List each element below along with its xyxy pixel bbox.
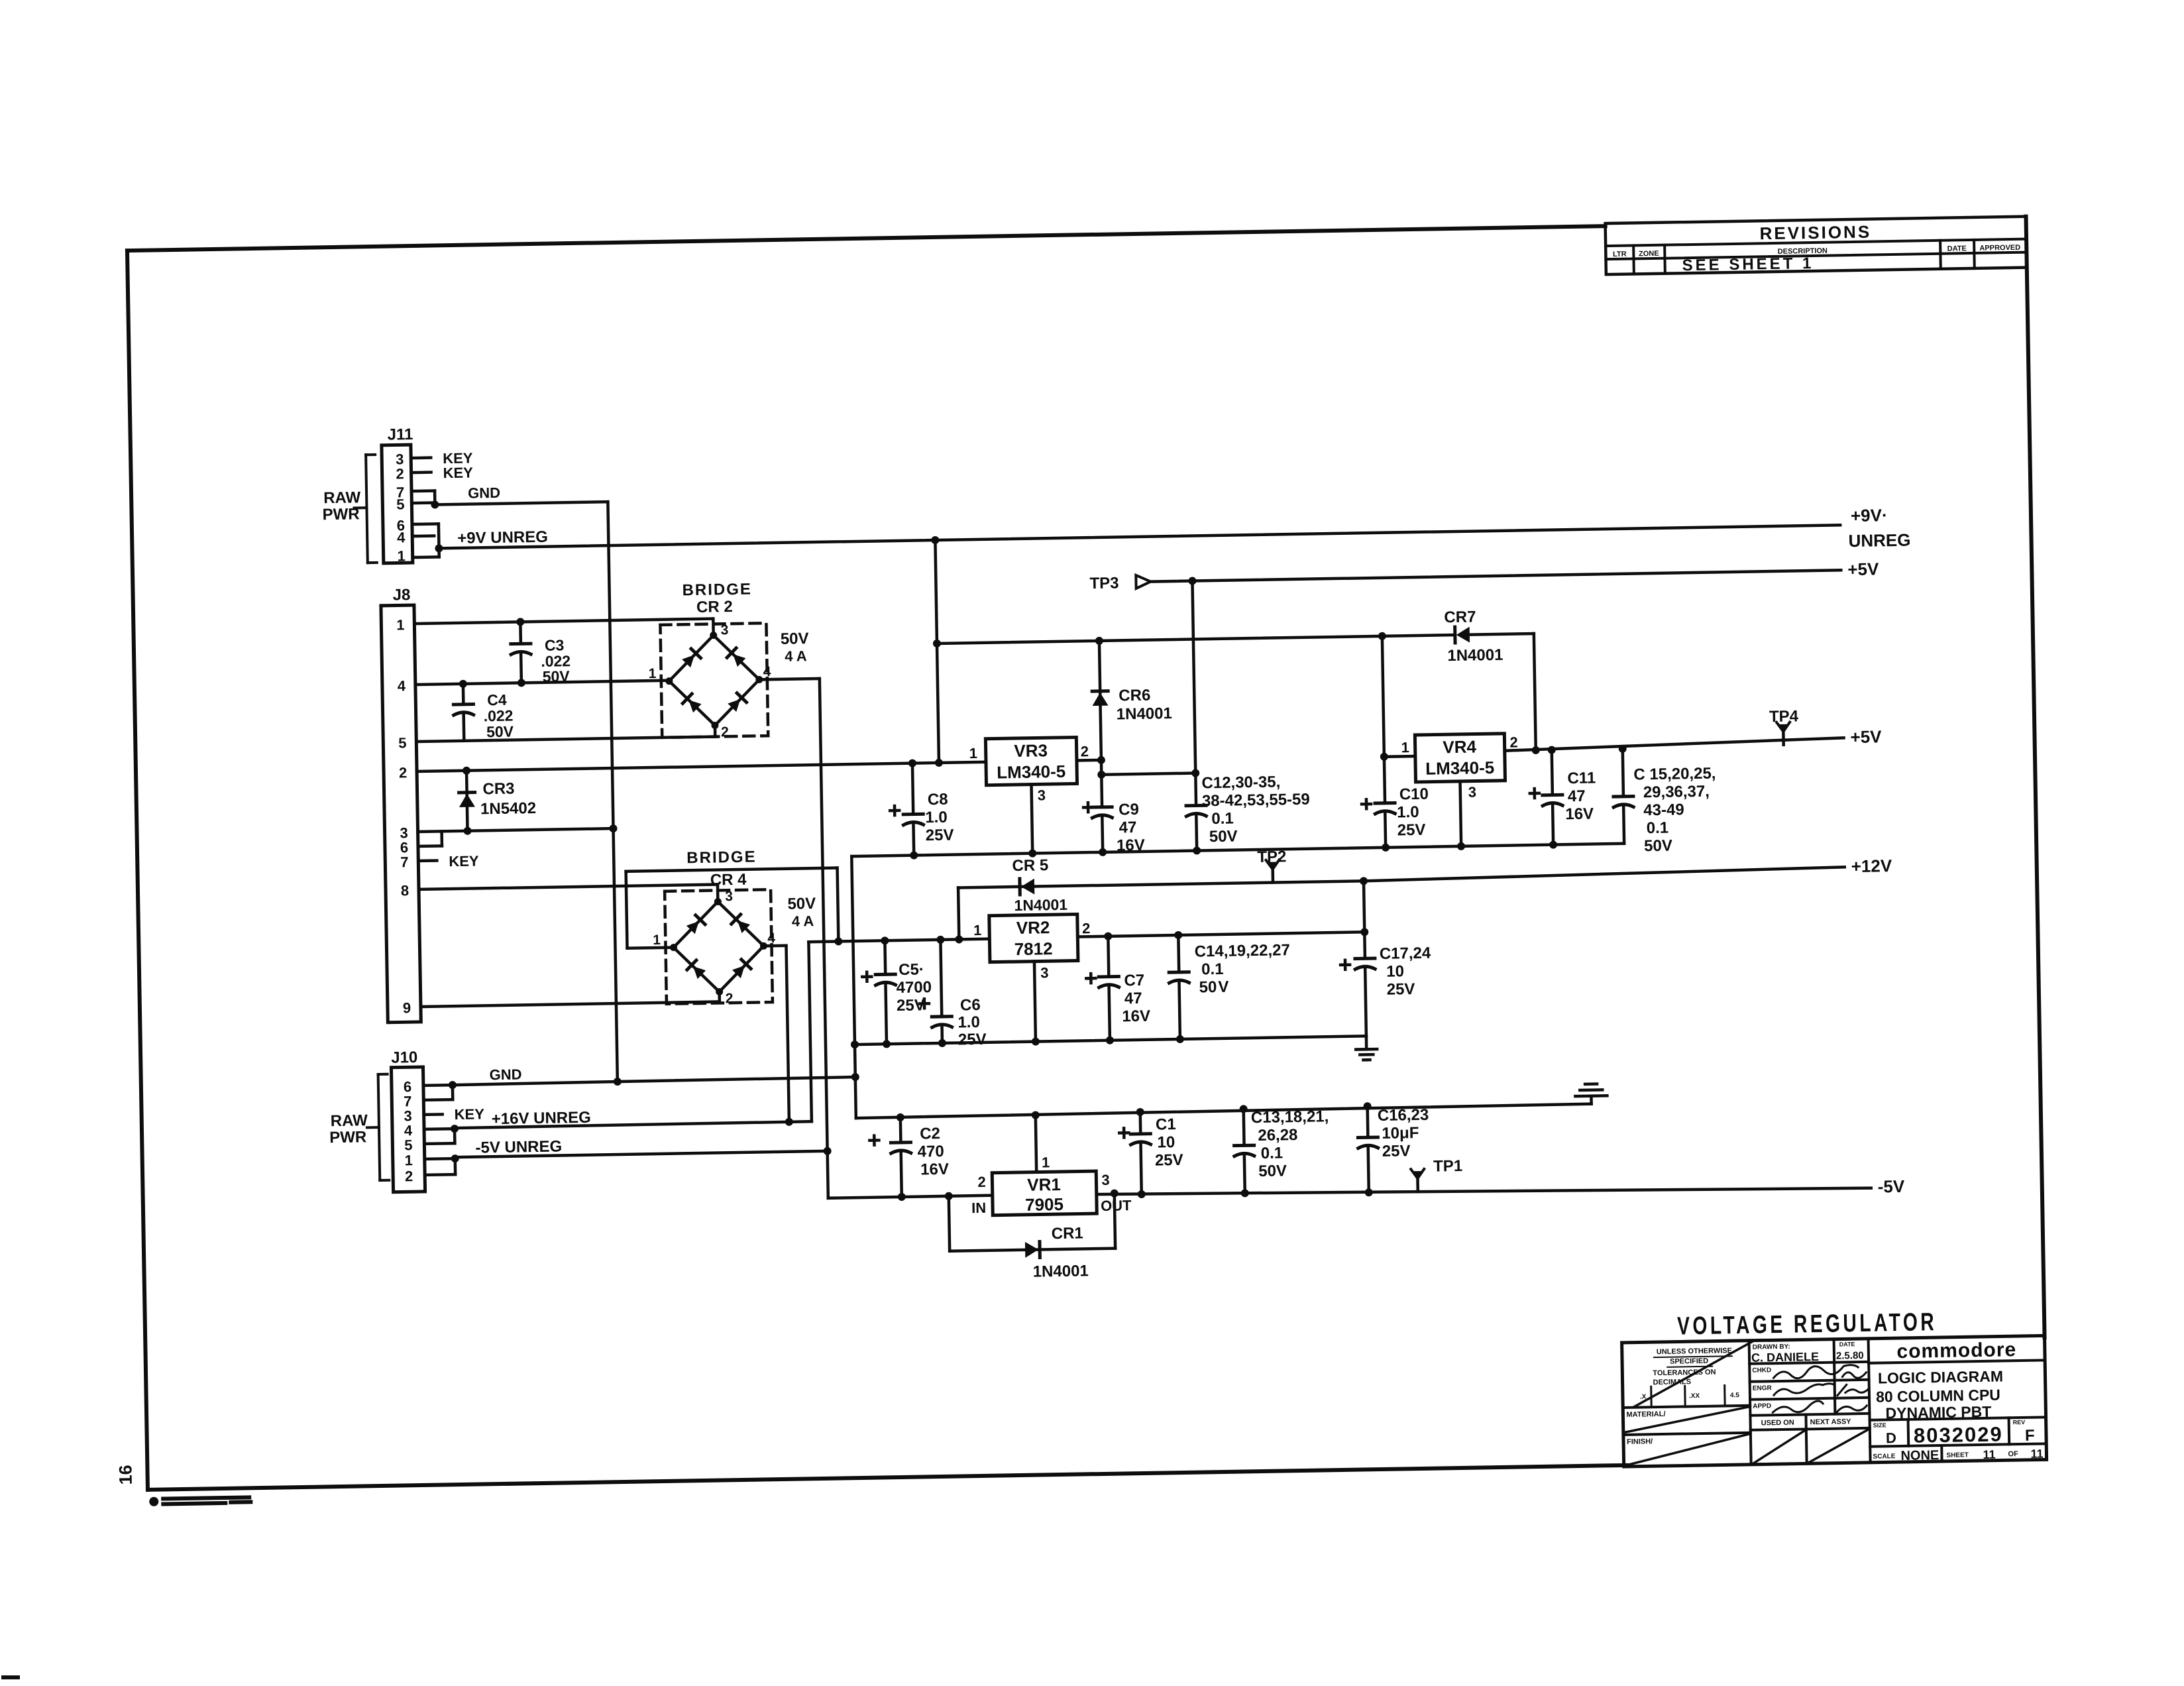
- date column divider: [1834, 1339, 1835, 1414]
- svg-text:2: 2: [1509, 734, 1518, 750]
- node TP3 line at riser: [1188, 577, 1196, 585]
- wire J11 pin3 KEY stub: [411, 456, 431, 459]
- capacitor C13 group: [1242, 1109, 1245, 1145]
- svg-text:25V: 25V: [1386, 980, 1415, 999]
- capacitor C2: [899, 1117, 902, 1143]
- svg-text:1N5402: 1N5402: [480, 799, 537, 818]
- node C8 bottom: [910, 851, 918, 859]
- node C11 bottom: [1549, 840, 1557, 848]
- svg-text:25V: 25V: [897, 996, 925, 1015]
- plus C9: [1083, 803, 1093, 812]
- node VR3 output at CR6: [1097, 756, 1105, 764]
- svg-text:25V: 25V: [1155, 1151, 1183, 1170]
- svg-text:DATE: DATE: [1947, 245, 1967, 253]
- wire GND from J11 to ground vertical: [435, 502, 608, 504]
- node C4 top: [459, 680, 467, 688]
- svg-text:1N4001: 1N4001: [1014, 896, 1067, 914]
- svg-text:C13,18,21,: C13,18,21,: [1251, 1107, 1329, 1127]
- svg-text:C7: C7: [1124, 972, 1144, 990]
- svg-text:5: 5: [398, 734, 407, 751]
- svg-text:9: 9: [403, 999, 411, 1016]
- svg-text:C4: C4: [487, 691, 507, 708]
- finish row divider: [1623, 1433, 1751, 1435]
- node VR2 output joins C17 riser: [1360, 928, 1368, 936]
- wire CR7 corner down to +5V rail: [1534, 634, 1536, 750]
- plus C7: [1086, 974, 1095, 983]
- svg-text:2: 2: [1082, 920, 1091, 936]
- connector J11 body: [382, 445, 413, 563]
- capacitor C12 group: [1194, 773, 1197, 806]
- node C13 bottom: [1241, 1189, 1249, 1197]
- diode CR3: [466, 771, 468, 831]
- wire CR2 output vertical down to -5V unreg line: [820, 679, 828, 1151]
- wire GND bus J10 to ground ladder: [453, 1082, 618, 1085]
- svg-text:CR3: CR3: [482, 780, 514, 799]
- svg-text:1: 1: [969, 745, 978, 761]
- svg-text:4: 4: [398, 677, 406, 694]
- svg-text:2: 2: [721, 724, 729, 740]
- svg-text:4700: 4700: [896, 978, 932, 997]
- wire bridge CR4 node1 loop to VR2 input rail: [628, 948, 674, 948]
- svg-text:CR6: CR6: [1119, 687, 1150, 705]
- page edge dash bottom left: [1, 1675, 20, 1679]
- node GND bus joins ground ladder: [851, 1073, 859, 1081]
- svg-text:25V: 25V: [926, 826, 954, 845]
- wire C17 riser and capacitor C17 C24: [1364, 881, 1364, 932]
- node C13 top: [1240, 1105, 1248, 1113]
- svg-text:C8: C8: [928, 791, 948, 809]
- svg-text:50V: 50V: [1209, 827, 1238, 846]
- svg-text:RAW: RAW: [331, 1111, 368, 1130]
- connector J8 body: [381, 605, 421, 1023]
- svg-text:IN: IN: [971, 1200, 986, 1216]
- wire J8 pin6 jog to pin3 line: [418, 844, 442, 848]
- wire VR4 pin2 +5V output rail: [1505, 738, 1844, 750]
- svg-text:SIZE: SIZE: [1873, 1422, 1886, 1428]
- wire VR2 pin2 output rail: [1077, 932, 1364, 936]
- svg-text:USED ON: USED ON: [1761, 1419, 1794, 1428]
- tolerance box diagonal: [1633, 1341, 1755, 1407]
- svg-text:3: 3: [720, 622, 728, 638]
- svg-text:D: D: [1886, 1430, 1896, 1446]
- node C8 top: [908, 759, 916, 767]
- title block outer frame: [1622, 1335, 2047, 1467]
- svg-text:KEY: KEY: [454, 1105, 484, 1123]
- wire VR3 output jog to +5V riser: [1100, 760, 1103, 775]
- tolerance tick marks: [1650, 1386, 1652, 1406]
- rev box divider: [2008, 1418, 2011, 1444]
- wire VR4 pin3 ground lead: [1460, 781, 1462, 846]
- svg-text:16V: 16V: [920, 1160, 949, 1179]
- svg-text:47: 47: [1568, 787, 1586, 805]
- wire J10 pins 4-5 +16V stub: [424, 1127, 455, 1131]
- wire VR2 pin3 ground lead: [1034, 962, 1036, 1042]
- svg-text:VR2: VR2: [1016, 917, 1050, 938]
- wire +5V riser to TP3 line: [1192, 581, 1195, 773]
- wire J8 pin7 KEY stub: [418, 859, 437, 862]
- node +9V stub J11: [435, 544, 443, 552]
- diode CR6: [1099, 641, 1101, 760]
- capacitor C6: [940, 940, 942, 1017]
- scale row dividers: [1940, 1445, 1943, 1461]
- svg-text:2: 2: [399, 764, 408, 781]
- ground symbol VR1 section: [1590, 1096, 1593, 1104]
- wire J10 pins 1-2 -5V stub: [425, 1157, 455, 1160]
- svg-text:10: 10: [1157, 1133, 1175, 1151]
- svg-text:50V: 50V: [486, 723, 514, 741]
- svg-text:C17,24: C17,24: [1380, 944, 1431, 963]
- node C6 top: [936, 936, 944, 944]
- copyright smudge line: [149, 1497, 158, 1506]
- svg-text:38-42,53,55-59: 38-42,53,55-59: [1202, 791, 1310, 811]
- svg-text:2: 2: [726, 991, 734, 1006]
- test point TP2: [1271, 870, 1274, 883]
- svg-text:CR 4: CR 4: [710, 871, 747, 889]
- wire -5V output rail: [1097, 1182, 1871, 1201]
- page border top: [127, 226, 1606, 251]
- svg-text:C10: C10: [1399, 785, 1429, 804]
- svg-text:CR 5: CR 5: [1012, 856, 1048, 875]
- plus C10: [1362, 799, 1371, 809]
- connector J10 body: [391, 1067, 425, 1192]
- svg-text:ZONE: ZONE: [1639, 250, 1659, 258]
- svg-text:3: 3: [725, 889, 733, 904]
- svg-text:11: 11: [2030, 1447, 2043, 1460]
- svg-text:1: 1: [397, 547, 406, 564]
- svg-text:2: 2: [405, 1168, 413, 1184]
- node ground ladder at VR2 rail: [851, 1040, 859, 1048]
- svg-text:CR 2: CR 2: [696, 598, 733, 616]
- svg-text:50V: 50V: [1644, 837, 1672, 856]
- diode CR5: [1021, 879, 1034, 895]
- capacitor C8: [912, 763, 913, 815]
- node C1 bottom: [1138, 1190, 1146, 1198]
- svg-text:25V: 25V: [958, 1031, 987, 1049]
- wire ground vertical from J11 GND down to GND bus: [608, 502, 617, 1081]
- svg-text:VR1: VR1: [1027, 1174, 1061, 1195]
- svg-text:4.5: 4.5: [1730, 1392, 1740, 1399]
- node -5V stub J10: [451, 1154, 459, 1162]
- wire +16V riser to VR2 input rail: [808, 942, 811, 1121]
- svg-text:0.1: 0.1: [1647, 819, 1669, 838]
- node C2 bottom: [898, 1193, 906, 1201]
- svg-text:50V: 50V: [1258, 1162, 1287, 1180]
- svg-text:2: 2: [396, 465, 404, 482]
- svg-text:50V: 50V: [787, 895, 816, 913]
- capacitor C9: [1100, 775, 1103, 807]
- svg-text:16V: 16V: [1565, 805, 1594, 824]
- svg-text:10μF: 10μF: [1382, 1124, 1419, 1143]
- svg-text:MATERIAL/: MATERIAL/: [1626, 1410, 1665, 1419]
- svg-text:CR1: CR1: [1052, 1224, 1083, 1243]
- svg-text:1.0: 1.0: [1397, 803, 1419, 822]
- svg-text:.XX: .XX: [1689, 1392, 1700, 1400]
- svg-text:47: 47: [1119, 818, 1136, 836]
- svg-text:C16,23: C16,23: [1378, 1106, 1429, 1125]
- svg-text:43-49: 43-49: [1643, 801, 1684, 819]
- svg-text:LM340-5: LM340-5: [997, 761, 1066, 783]
- node GND bus joins ground vertical: [614, 1078, 622, 1086]
- node GND stub J11: [431, 500, 439, 508]
- svg-text:GND: GND: [468, 484, 500, 502]
- capacitor C15 group: [1623, 749, 1623, 797]
- svg-text:J10: J10: [391, 1048, 417, 1067]
- node distribution line at riser: [933, 640, 941, 647]
- svg-text:2: 2: [977, 1174, 986, 1190]
- wire J10 pin3 KEY stub: [424, 1113, 443, 1116]
- node CR5 riser: [955, 935, 963, 943]
- node CR1 loop at input: [945, 1192, 953, 1200]
- wire VR4 pin1 lead: [1384, 755, 1415, 758]
- svg-text:C6: C6: [960, 996, 981, 1015]
- svg-text:APPD: APPD: [1753, 1402, 1771, 1410]
- svg-text:2: 2: [1080, 743, 1089, 759]
- svg-text:11: 11: [1983, 1448, 1995, 1461]
- svg-text:VR4: VR4: [1443, 736, 1477, 757]
- node C10 bottom: [1382, 844, 1390, 852]
- regulator VR2 box: [989, 914, 1078, 962]
- svg-text:1: 1: [396, 616, 405, 633]
- diode CR7: [1456, 627, 1470, 643]
- logic diagram row divider: [1870, 1417, 2046, 1420]
- node VR3 output jog: [1097, 771, 1105, 779]
- size row divider: [1870, 1443, 2046, 1446]
- svg-text:OUT: OUT: [1101, 1197, 1132, 1214]
- node C12 bottom: [1193, 846, 1201, 854]
- wire +9V unreg distribution line with CR7: [937, 635, 1454, 644]
- svg-text:UNREG: UNREG: [1848, 530, 1910, 551]
- svg-text:C14,19,22,27: C14,19,22,27: [1195, 941, 1291, 960]
- test point TP3 arrow: [1136, 575, 1150, 589]
- svg-text:PWR: PWR: [322, 505, 359, 524]
- node ground rail at C6: [938, 1039, 946, 1047]
- revisions table frame: [1606, 217, 2027, 275]
- svg-text:1N4001: 1N4001: [1032, 1262, 1089, 1280]
- svg-text:25V: 25V: [1382, 1142, 1411, 1160]
- bridge rectifier CR4: [673, 901, 764, 992]
- svg-text:-5V UNREG: -5V UNREG: [475, 1137, 562, 1156]
- wire J10 pins 6-7 GND stub: [423, 1084, 453, 1087]
- node +12V to VR2 output rail: [1360, 877, 1368, 885]
- node ground rail at C7: [1106, 1037, 1114, 1044]
- wire J8 pin2 to VR3 pin 1 (+9V unreg): [417, 762, 986, 771]
- page border right: [2026, 217, 2045, 1338]
- node pin3 line joins ground vertical: [609, 824, 617, 832]
- svg-text:7812: 7812: [1014, 938, 1052, 959]
- wire J11 pins 7-5 GND stub: [411, 489, 435, 492]
- svg-text:BRIDGE: BRIDGE: [686, 848, 757, 868]
- plus C1: [1119, 1128, 1128, 1137]
- capacitor C16 C23: [1366, 1106, 1369, 1137]
- title block divider tolerance/drawn: [1749, 1341, 1751, 1465]
- node CR4 loop joins VR2 input rail: [834, 937, 842, 945]
- bridge rectifier CR4 dashed outline: [665, 889, 773, 1004]
- node C1 top: [1136, 1108, 1144, 1116]
- svg-text:7905: 7905: [1025, 1194, 1064, 1215]
- svg-text:F: F: [2025, 1427, 2035, 1445]
- svg-text:3: 3: [1101, 1172, 1110, 1188]
- node C16 top: [1364, 1102, 1372, 1110]
- svg-text:3: 3: [1468, 783, 1477, 800]
- svg-text:NEXT ASSY: NEXT ASSY: [1810, 1418, 1852, 1426]
- used-on header divider: [1751, 1428, 1870, 1430]
- svg-text:25V: 25V: [1397, 821, 1426, 840]
- svg-text:50V: 50V: [781, 630, 809, 648]
- bridge rectifier CR2 dashed outline: [660, 623, 768, 738]
- svg-text:TP1: TP1: [1433, 1157, 1462, 1176]
- svg-text:+9V UNREG: +9V UNREG: [457, 528, 548, 547]
- svg-text:TP4: TP4: [1769, 707, 1799, 726]
- svg-text:8032029: 8032029: [1914, 1422, 2003, 1447]
- wire VR3 VR4 ground rail: [851, 844, 1624, 856]
- node +16V stub J10: [451, 1125, 459, 1133]
- wire VR1 input line: [828, 1196, 993, 1198]
- svg-text:C. DANIELE: C. DANIELE: [1751, 1350, 1819, 1365]
- material row diagonal: [1625, 1407, 1749, 1432]
- wire J11 pin2 KEY stub: [411, 471, 431, 474]
- used-on diagonal: [1753, 1430, 1806, 1463]
- capacitor C4: [462, 684, 465, 704]
- regulator VR3 box: [985, 737, 1077, 785]
- svg-text:4 A: 4 A: [792, 913, 814, 930]
- capacitor C7: [1108, 936, 1109, 977]
- capacitor C11: [1552, 750, 1553, 795]
- used-on column divider: [1806, 1414, 1806, 1463]
- node CR3 top: [463, 767, 470, 775]
- node C14 top: [1174, 931, 1182, 939]
- svg-text:CR7: CR7: [1444, 608, 1476, 626]
- wire bridge CR4 node4 down to +16V unreg line: [763, 944, 786, 948]
- svg-text:DRAWN BY:: DRAWN BY:: [1753, 1343, 1790, 1351]
- wire J8 pin1 to bridge CR2 node 3: [414, 619, 713, 624]
- svg-text:1: 1: [653, 932, 661, 948]
- wire bridge CR2 node4 output: [759, 679, 820, 680]
- svg-text:1: 1: [1401, 739, 1409, 756]
- node +9V rail to riser: [931, 536, 939, 544]
- wire J8 pin3 ground stub: [418, 828, 614, 832]
- svg-text:C11: C11: [1567, 769, 1596, 787]
- node VR4 pin1 tee: [1380, 753, 1388, 761]
- test point TP1: [1416, 1178, 1419, 1192]
- svg-text:4 A: 4 A: [785, 647, 807, 665]
- capacitor C3: [519, 622, 522, 644]
- wire -5V unreg jog down to VR1 input line: [828, 1151, 828, 1198]
- svg-text:16: 16: [115, 1465, 135, 1485]
- wire +9V riser to VR3 input: [935, 540, 939, 763]
- svg-text:PWR: PWR: [329, 1128, 366, 1147]
- plus C11: [1530, 789, 1539, 798]
- node CR6 top: [1095, 637, 1103, 645]
- svg-text:470: 470: [917, 1143, 944, 1161]
- svg-text:1.0: 1.0: [957, 1013, 980, 1032]
- capacitor C1: [1138, 1112, 1142, 1134]
- svg-text:0.1: 0.1: [1211, 810, 1234, 828]
- node CR1 loop at output: [1111, 1190, 1119, 1198]
- svg-text:3: 3: [1038, 787, 1046, 803]
- svg-text:0.1: 0.1: [1261, 1144, 1283, 1162]
- capacitor C14 group: [1177, 935, 1180, 972]
- wire +5V TP3 line: [1150, 570, 1841, 581]
- page border bottom: [148, 1465, 1627, 1490]
- test point TP4: [1782, 732, 1785, 745]
- node C16 bottom: [1365, 1188, 1373, 1196]
- node VR4 pin3 ground: [1457, 842, 1465, 850]
- node CR3 bottom: [463, 827, 471, 835]
- node ground rail at C14: [1176, 1035, 1184, 1043]
- finish row diagonal: [1626, 1434, 1750, 1465]
- svg-text:+12V: +12V: [1851, 856, 1892, 876]
- capacitor C5: [883, 940, 887, 974]
- svg-text:OF: OF: [2008, 1450, 2018, 1458]
- svg-text:RAW: RAW: [323, 488, 361, 507]
- page border left: [127, 251, 148, 1490]
- next-assy diagonal: [1809, 1430, 1869, 1462]
- svg-text:4: 4: [763, 664, 771, 679]
- wire VR2 input rail: [808, 939, 989, 942]
- svg-text:C1: C1: [1156, 1115, 1176, 1134]
- wire VR1 pin1 ground lead: [1036, 1115, 1036, 1172]
- wire +16V unreg line to VR2 input vertical: [455, 1121, 812, 1128]
- node C7 top: [1104, 932, 1112, 940]
- wire VR3 pin2 output: [1077, 759, 1101, 762]
- svg-text:47: 47: [1124, 989, 1142, 1007]
- svg-text:C2: C2: [920, 1125, 940, 1143]
- svg-text:LM340-5: LM340-5: [1425, 758, 1495, 779]
- svg-text:VR3: VR3: [1014, 740, 1048, 761]
- svg-text:7: 7: [400, 854, 409, 870]
- svg-text:1N4001: 1N4001: [1117, 704, 1173, 723]
- svg-text:-5V: -5V: [1877, 1176, 1905, 1197]
- raw power bracket J11: [366, 455, 368, 563]
- svg-text:3: 3: [1040, 964, 1049, 981]
- node C5 top: [881, 936, 889, 944]
- regulator VR4 box: [1415, 734, 1505, 782]
- node GND stub J10: [449, 1081, 457, 1089]
- wire ground ladder vertical: [851, 856, 856, 1118]
- wire VR3 pin3 ground lead: [1032, 785, 1033, 854]
- ground symbol VR2 section: [1365, 1036, 1368, 1049]
- node ground rail at C5: [883, 1040, 891, 1048]
- node -5V unreg joins CR2 output vertical: [824, 1147, 832, 1155]
- svg-text:1: 1: [1042, 1154, 1050, 1170]
- commodore row divider: [1869, 1360, 2045, 1363]
- svg-text:C9: C9: [1119, 801, 1139, 819]
- wire C10 riser and capacitor C10: [1382, 636, 1384, 757]
- svg-text:SCALE: SCALE: [1873, 1453, 1895, 1461]
- raw power bracket J10: [378, 1074, 380, 1180]
- svg-text:KEY: KEY: [443, 465, 473, 482]
- svg-text:DATE: DATE: [1839, 1341, 1855, 1347]
- plus C8: [890, 806, 899, 815]
- node VR1 pin1 ground: [1032, 1111, 1040, 1119]
- svg-text:1.0: 1.0: [925, 809, 948, 827]
- svg-text:BRIDGE: BRIDGE: [682, 581, 752, 600]
- node riser to VR3 input line: [935, 759, 943, 767]
- svg-text:C12,30-35,: C12,30-35,: [1201, 773, 1280, 792]
- svg-text:DYNAMIC PBT: DYNAMIC PBT: [1885, 1403, 1991, 1422]
- svg-text:TP3: TP3: [1089, 574, 1119, 592]
- bridge rectifier CR2: [669, 634, 760, 726]
- wire +12V line with CR5: [958, 881, 1364, 887]
- wire J8 pin8 to bridge CR4 node 3: [419, 884, 718, 889]
- wire +9V UNREG rail: [439, 525, 1840, 548]
- svg-text:2.5.80: 2.5.80: [1836, 1350, 1864, 1362]
- size box divider: [1907, 1420, 1910, 1446]
- svg-text:5: 5: [396, 496, 405, 512]
- svg-text:J11: J11: [387, 425, 413, 444]
- node C9 bottom: [1099, 848, 1107, 856]
- svg-text:5: 5: [404, 1137, 413, 1153]
